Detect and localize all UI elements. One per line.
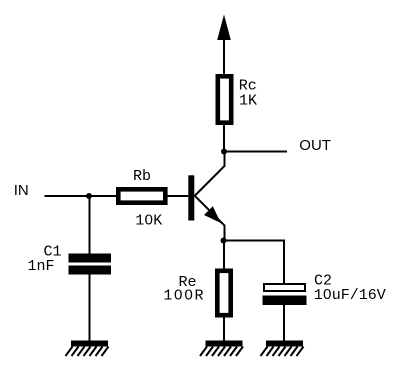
wire emitter node to C2 branch bbox=[224, 241, 285, 284]
resistor Rc bbox=[218, 76, 231, 122]
power supply arrow VCC bbox=[217, 15, 231, 75]
ground under C1 bbox=[66, 341, 109, 357]
node collector junction bbox=[221, 149, 227, 155]
wire Rb to base bbox=[168, 195, 189, 197]
wire emitter node down to Re bbox=[223, 241, 225, 269]
wire base node down to C1 bbox=[89, 196, 91, 254]
node input junction bbox=[86, 193, 92, 199]
wire Re to ground bbox=[223, 318, 225, 342]
transistor Q1 base bar bbox=[188, 175, 194, 220]
resistor Re bbox=[217, 271, 230, 315]
svg-text:Rb: Rb bbox=[133, 168, 151, 185]
svg-text:IN: IN bbox=[14, 182, 29, 199]
ground under Re bbox=[200, 341, 243, 357]
transistor Q1 emitter arrow bbox=[204, 206, 221, 223]
wire IN to base node bbox=[45, 195, 90, 197]
svg-text:10uF/16V: 10uF/16V bbox=[314, 287, 386, 304]
wire C1 to ground bbox=[89, 275, 91, 342]
svg-text:1nF: 1nF bbox=[28, 258, 55, 275]
node emitter junction bbox=[221, 238, 227, 244]
wire C2 to ground bbox=[283, 305, 285, 341]
wire Rc bottom to collector node bbox=[223, 125, 225, 152]
capacitor C1 bbox=[69, 254, 112, 275]
svg-text:100R: 100R bbox=[163, 288, 204, 305]
ground under C2 bbox=[261, 341, 304, 357]
capacitor C2 electrolytic bottom plate bbox=[263, 296, 307, 306]
wire emitter lead bbox=[195, 196, 225, 241]
resistor Rb bbox=[118, 189, 165, 202]
wire collector lead bbox=[195, 152, 225, 196]
svg-text:1K: 1K bbox=[239, 92, 257, 109]
capacitor C2 electrolytic top plate bbox=[264, 284, 305, 291]
svg-text:OUT: OUT bbox=[299, 137, 331, 154]
wire base node to Rb bbox=[89, 195, 116, 197]
wire OUT bbox=[224, 151, 287, 153]
